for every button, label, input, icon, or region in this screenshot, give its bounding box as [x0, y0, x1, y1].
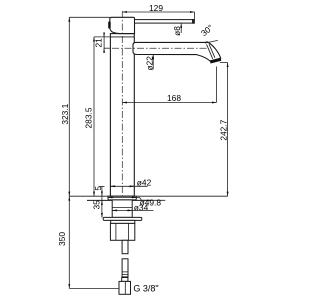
dim 35 arrow down [101, 212, 103, 218]
svg-text:ø8: ø8 [172, 26, 182, 36]
G3/8 nut [119, 281, 131, 294]
dim 5 arrow down [101, 190, 103, 196]
left dim line 323.1/350 [68, 17, 70, 196]
dim 242.7 line [227, 63, 229, 197]
lever end band [192, 19, 194, 23]
spout tube with elbow [133, 42, 221, 61]
dim 168 right extension [215, 67, 217, 103]
nut facet right [127, 223, 129, 240]
body top joint line [110, 36, 134, 38]
handle socket dark mark [108, 21, 111, 28]
dim 283.5 top extension [94, 36, 110, 38]
cartridge cap (bonnet) [110, 17, 135, 33]
vertical centerline [121, 11, 123, 197]
faucet body tube [110, 34, 134, 197]
lever rod [135, 20, 195, 24]
svg-text:323.1: 323.1 [60, 103, 70, 124]
svg-text:242.7: 242.7 [219, 119, 229, 140]
ø49.8 arrow left [108, 196, 114, 198]
deck surface line [87, 199, 152, 201]
dim 129 line [122, 11, 194, 13]
label ø22 leader [152, 55, 154, 70]
hose hatch lines [122, 272, 128, 277]
dim 21 bottom extension [104, 47, 110, 49]
mounting nut [110, 223, 134, 240]
label ø34 dim line across shank [112, 209, 153, 211]
nozzle joint line a [207, 44, 213, 58]
dim 129 right extension [194, 12, 196, 19]
aerator band [210, 58, 221, 63]
spout centerline [112, 47, 207, 49]
svg-text:168: 168 [167, 93, 181, 103]
clamp flange [103, 217, 142, 220]
label ø8 leader [180, 23, 182, 33]
svg-text:21: 21 [94, 38, 104, 48]
ø42 arrow right [129, 185, 135, 187]
ø49.8 arrow right [131, 196, 137, 198]
G3/8 nut neck [122, 278, 128, 282]
hose segment 1 [122, 240, 128, 253]
svg-text:ø34: ø34 [134, 202, 149, 212]
dim 168 line [122, 102, 216, 104]
nut facet left [115, 223, 117, 240]
svg-text:ø42: ø42 [137, 178, 152, 188]
dim 5 top tick [99, 186, 104, 188]
base plate [108, 196, 136, 200]
ø42 arrow left [110, 185, 116, 187]
svg-text:ø22: ø22 [144, 56, 154, 71]
dim 21 line [103, 34, 105, 52]
label ø49.8 dim line across plate [108, 196, 137, 198]
shank joint line [112, 206, 132, 208]
dim 5+35 shared line [101, 187, 103, 218]
nozzle joint line b [209, 44, 215, 58]
ø49.8 landing [137, 197, 166, 200]
bevel ring [111, 220, 135, 223]
dim 35 arrow up [101, 201, 103, 206]
dim 242.7 top extension [220, 62, 228, 64]
hose segment 2 [122, 259, 128, 278]
svg-text:35: 35 [92, 200, 102, 210]
top-left extension line [69, 16, 110, 18]
label 30 angle line [205, 40, 218, 43]
reference plane line [69, 195, 227, 197]
ø34 arrow left [112, 209, 118, 211]
svg-text:129: 129 [149, 3, 163, 13]
label ø42 dim line across body [110, 185, 147, 187]
svg-text:G 3/8": G 3/8" [133, 284, 158, 294]
svg-text:350: 350 [57, 232, 67, 246]
ø34 arrow right [127, 209, 133, 211]
svg-text:5: 5 [93, 186, 103, 191]
svg-text:283.5: 283.5 [84, 107, 94, 128]
shank [112, 200, 132, 218]
dim 283.5 line [93, 37, 95, 196]
dim 350 line [68, 196, 70, 288]
dim 350 bottom extension [69, 287, 119, 289]
G3/8 nut facet [124, 281, 126, 294]
